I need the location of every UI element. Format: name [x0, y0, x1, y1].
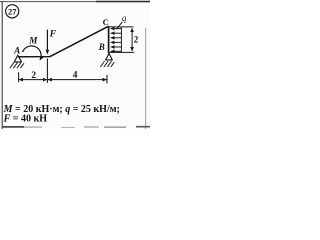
member C-B (vertical)	[108, 26, 110, 53]
svg-text:4: 4	[73, 71, 78, 81]
svg-text:q: q	[122, 13, 127, 23]
moment M arc	[23, 46, 42, 60]
load arrows	[111, 28, 121, 30]
load right edge	[120, 27, 122, 53]
svg-text:M: M	[28, 35, 38, 45]
hatching under support A	[10, 62, 24, 68]
svg-text:27: 27	[8, 7, 17, 17]
dimension extension tick under F bend	[46, 59, 48, 83]
dimension extension tick at A	[18, 72, 20, 82]
force F arrow	[46, 30, 48, 54]
dimension 2 (right vertical)	[132, 28, 139, 51]
pin support at A	[10, 55, 24, 68]
beam A-C (horizontal then inclined)	[18, 26, 109, 57]
hatching under support B	[100, 61, 114, 67]
load bottom edge / tick	[109, 51, 135, 53]
svg-text:F: F	[49, 30, 57, 40]
svg-text:B: B	[98, 42, 105, 52]
top frame line	[0, 1, 150, 3]
distributed load q on CB	[109, 27, 135, 53]
svg-text:A: A	[13, 45, 20, 55]
svg-text:2: 2	[134, 34, 139, 44]
svg-text:2: 2	[31, 71, 36, 81]
dimension line 2 (A to F)	[19, 79, 47, 81]
dimension extension tick under B	[106, 75, 108, 84]
q leader line	[116, 22, 122, 30]
problem number badge 27	[6, 5, 19, 18]
right frame line	[145, 28, 147, 129]
dimension line 4 (F to B)	[48, 79, 106, 81]
pin support at B	[100, 53, 114, 67]
svg-text:F = 40 кН: F = 40 кН	[3, 113, 48, 124]
svg-text:C: C	[103, 17, 109, 27]
load top edge / tick	[109, 26, 134, 28]
left frame line	[1, 1, 3, 129]
